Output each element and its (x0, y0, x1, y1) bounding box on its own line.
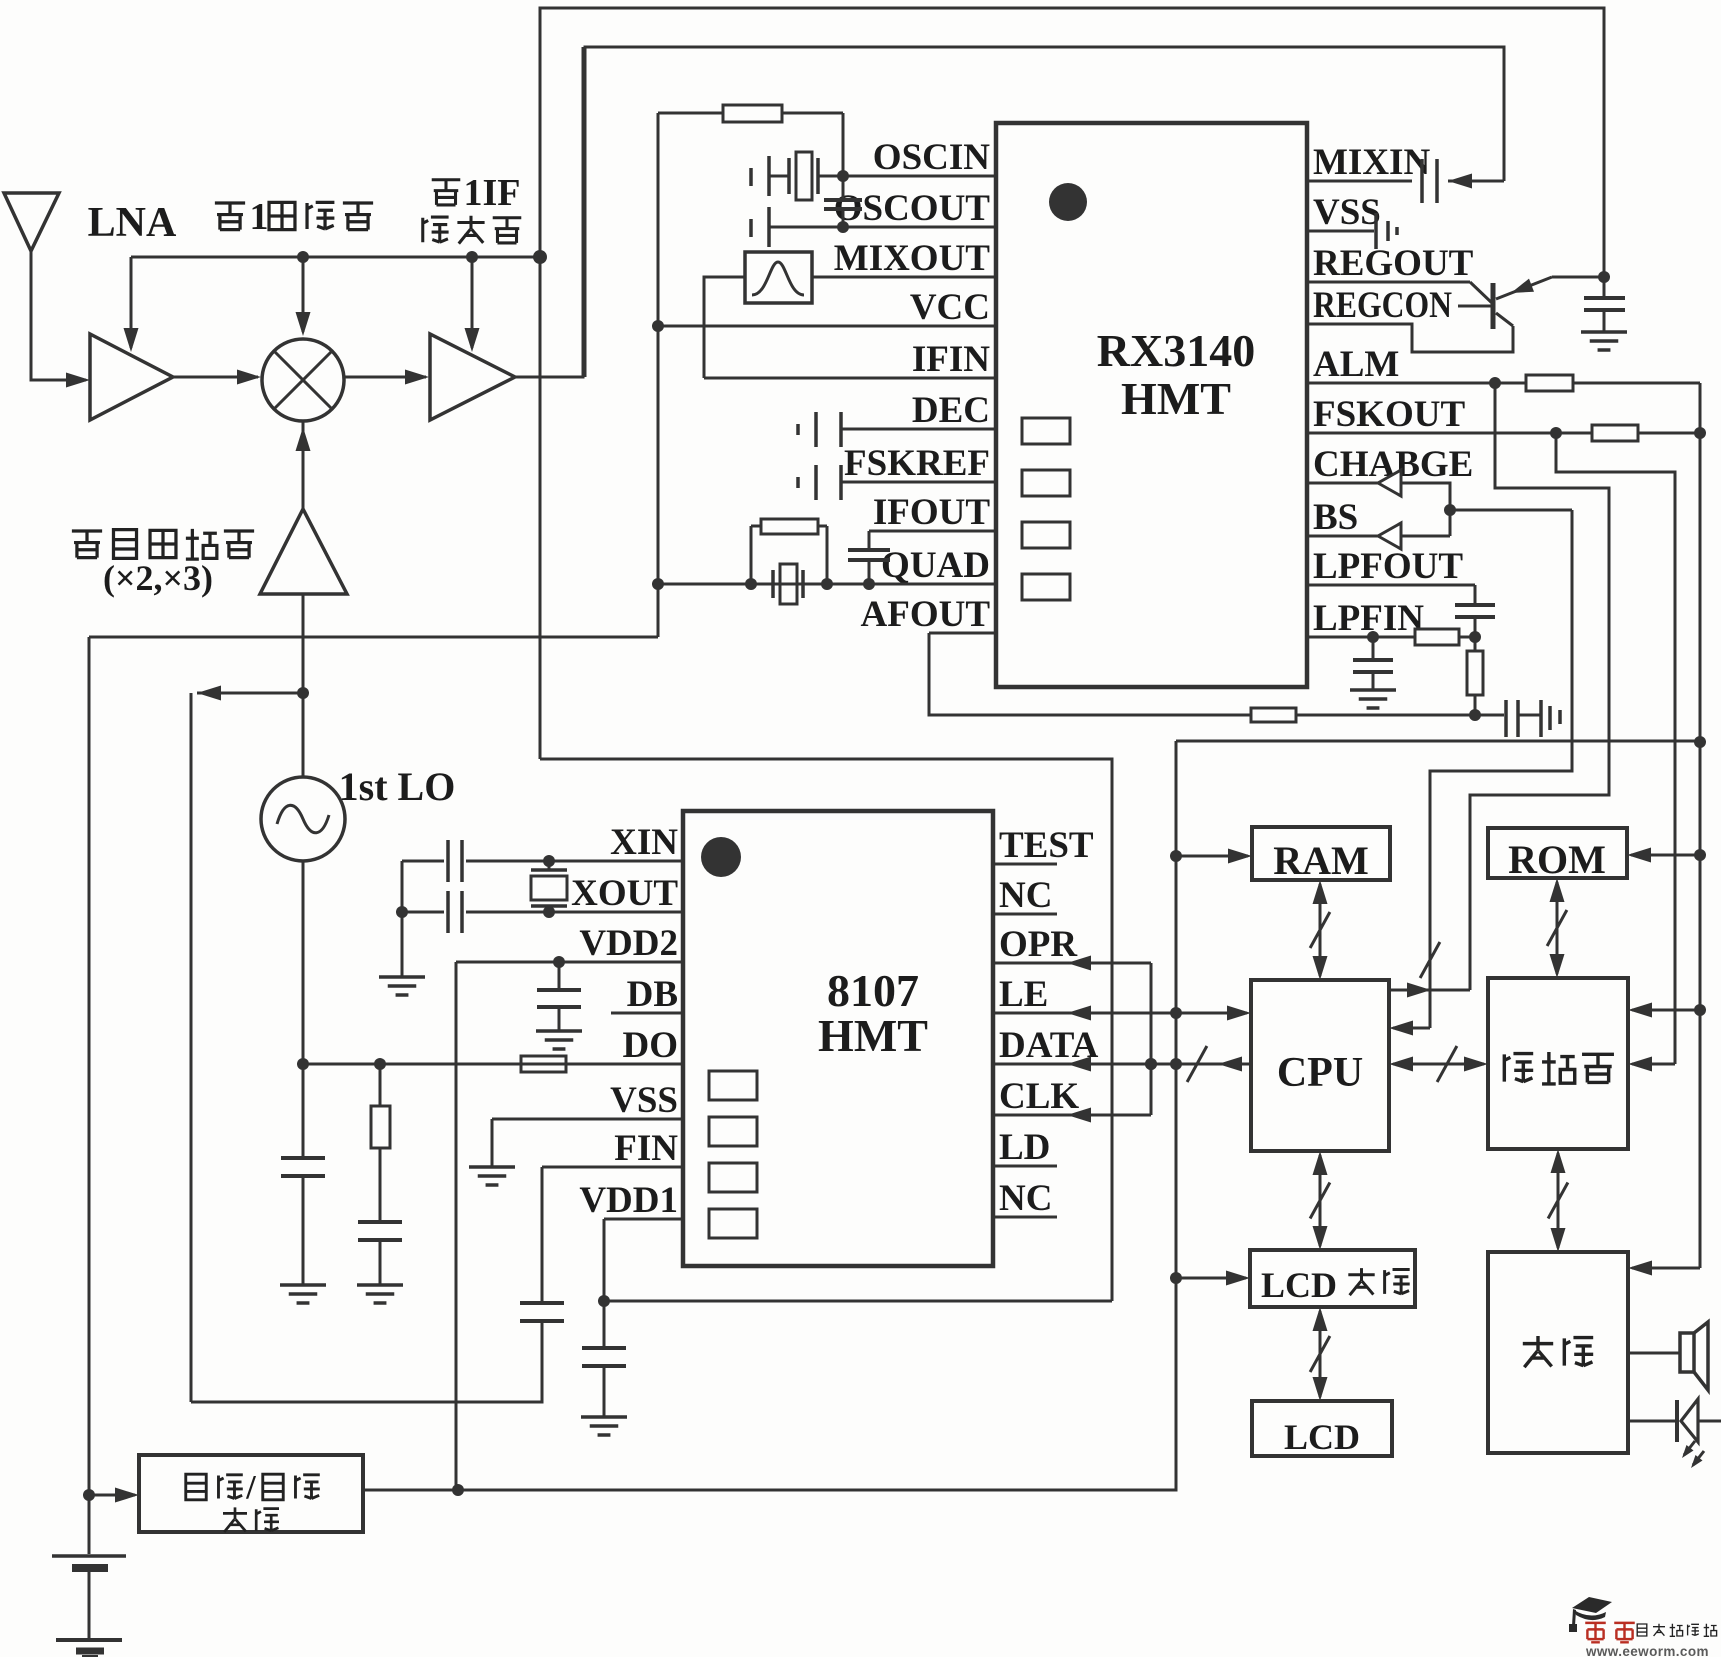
svg-text:LCD: LCD (1261, 1265, 1337, 1305)
svg-text:IFOUT: IFOUT (873, 492, 991, 533)
svg-text:HMT: HMT (818, 1010, 928, 1061)
svg-text:/: / (245, 1469, 256, 1506)
svg-text:ALM: ALM (1313, 344, 1399, 385)
svg-text:RAM: RAM (1273, 838, 1369, 883)
svg-text:LPFIN: LPFIN (1313, 598, 1424, 639)
svg-text:CLK: CLK (999, 1076, 1079, 1117)
svg-text:NC: NC (999, 875, 1052, 916)
svg-text:NC: NC (999, 1178, 1052, 1219)
svg-text:(×2,×3): (×2,×3) (103, 558, 213, 598)
svg-text:VDD1: VDD1 (579, 1180, 678, 1221)
svg-text:DEC: DEC (912, 390, 990, 431)
svg-text:QUAD: QUAD (881, 545, 990, 586)
svg-text:8107: 8107 (827, 965, 919, 1016)
svg-text:LD: LD (999, 1127, 1050, 1168)
svg-text:AFOUT: AFOUT (861, 594, 991, 635)
svg-text:XIN: XIN (610, 822, 678, 863)
svg-text:CPU: CPU (1277, 1050, 1363, 1096)
svg-text:LCD: LCD (1284, 1417, 1360, 1457)
svg-text:1IF: 1IF (464, 172, 521, 214)
svg-text:HMT: HMT (1121, 373, 1231, 424)
svg-text:1: 1 (250, 196, 269, 238)
svg-text:BS: BS (1313, 497, 1358, 538)
svg-text:OSCIN: OSCIN (873, 137, 990, 178)
svg-text:VDD2: VDD2 (579, 923, 678, 964)
svg-text:TEST: TEST (999, 825, 1094, 866)
svg-text:VSS: VSS (610, 1080, 678, 1121)
svg-text:LE: LE (999, 974, 1048, 1015)
svg-text:ROM: ROM (1508, 837, 1606, 882)
svg-text:FSKOUT: FSKOUT (1313, 394, 1465, 435)
svg-text:REGOUT: REGOUT (1313, 243, 1474, 284)
svg-text:www.eeworm.com: www.eeworm.com (1585, 1644, 1709, 1657)
svg-text:FIN: FIN (614, 1128, 678, 1169)
svg-text:RX3140: RX3140 (1097, 325, 1255, 376)
svg-text:REGCON: REGCON (1313, 285, 1452, 326)
svg-text:MIXIN: MIXIN (1313, 142, 1430, 183)
svg-text:OPR: OPR (999, 924, 1078, 965)
svg-text:LNA: LNA (88, 200, 177, 246)
svg-text:FSKREF: FSKREF (844, 443, 990, 484)
svg-text:VSS: VSS (1313, 192, 1381, 233)
svg-text:1st LO: 1st LO (339, 764, 456, 809)
svg-text:MIXOUT: MIXOUT (834, 238, 991, 279)
svg-text:LPFOUT: LPFOUT (1313, 546, 1463, 587)
svg-text:VCC: VCC (910, 287, 990, 328)
svg-text:IFIN: IFIN (912, 339, 990, 380)
svg-text:DB: DB (627, 974, 678, 1015)
svg-text:DO: DO (623, 1025, 679, 1066)
svg-text:XOUT: XOUT (571, 873, 678, 914)
